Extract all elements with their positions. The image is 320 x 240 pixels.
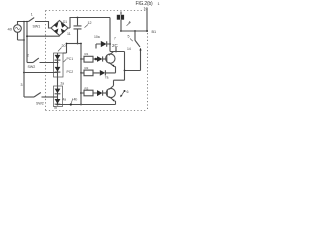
- LED PC4: [55, 99, 61, 104]
- svg-text:2a: 2a: [61, 82, 65, 86]
- LED stack spine: [57, 53, 59, 105]
- switch SW3 bottom: [24, 96, 34, 98]
- svg-text:7a: 7a: [105, 76, 109, 80]
- relay coil: [117, 15, 120, 20]
- wire AC top: [18, 22, 29, 25]
- diode D2: [94, 35, 100, 39]
- svg-text:D1: D1: [63, 20, 67, 24]
- svg-text:4a: 4a: [63, 98, 67, 102]
- svg-text:3: 3: [21, 83, 23, 87]
- svg-text:B1: B1: [152, 30, 157, 34]
- zener stub: [115, 47, 117, 52]
- label D1: [63, 20, 67, 24]
- base chain Q1: resistor R1: [85, 52, 89, 56]
- svg-text:6: 6: [127, 90, 129, 94]
- LED PC2: [55, 67, 61, 72]
- wire AC bottom: [18, 32, 25, 40]
- lower rail from C1: [67, 43, 82, 45]
- svg-text:2: 2: [27, 54, 29, 58]
- svg-text:40: 40: [8, 26, 13, 31]
- transistor Q1: [106, 54, 115, 63]
- svg-text:1: 1: [158, 2, 160, 6]
- label 12 with leader: [88, 21, 92, 25]
- label 4 with leader: [129, 20, 131, 24]
- mid bus: [80, 44, 82, 105]
- svg-text:11: 11: [67, 32, 71, 36]
- LED PC1: [55, 55, 61, 60]
- header text: [136, 1, 160, 10]
- transistor Q2: [106, 88, 115, 97]
- node line B1: [121, 30, 147, 32]
- svg-text:14: 14: [127, 47, 131, 51]
- svg-text:12: 12: [88, 21, 92, 25]
- dashed enclosure border: [46, 11, 148, 111]
- junction: [26, 35, 28, 37]
- relay contact: [134, 31, 136, 40]
- capacitor C1: [74, 26, 82, 29]
- svg-text:SW2: SW2: [36, 102, 44, 106]
- label P3: [61, 82, 65, 86]
- bridge + output to top rail: [68, 18, 110, 29]
- photo-LED box 2: [54, 86, 63, 107]
- svg-text:20: 20: [62, 44, 66, 48]
- AC source: [14, 25, 22, 33]
- svg-text:1: 1: [31, 13, 33, 17]
- svg-text:5: 5: [128, 35, 130, 39]
- base diode Q2: [97, 90, 102, 96]
- junction with label 4b: [70, 103, 72, 105]
- node B1: [146, 30, 148, 32]
- photo-LED box: [54, 53, 64, 77]
- svg-text:4b: 4b: [74, 98, 78, 102]
- svg-text:SW2: SW2: [28, 65, 36, 69]
- svg-text:PC1: PC1: [67, 57, 74, 61]
- svg-text:7b: 7b: [54, 106, 58, 110]
- bridge rectifier D1: [51, 21, 68, 36]
- wire left bus B: [26, 22, 28, 63]
- wire lead-in vertical: [146, 8, 148, 32]
- rail to PC2: [24, 72, 58, 74]
- switch SW1: [29, 18, 35, 22]
- switch SW2 mid: [27, 62, 33, 64]
- label 20 with leader: [62, 44, 66, 48]
- wire SW1 to bridge: [35, 22, 51, 29]
- top rail corner down: [109, 18, 111, 52]
- svg-text:10a: 10a: [94, 35, 100, 39]
- wire left bus A: [23, 22, 25, 98]
- svg-text:PC2: PC2: [67, 70, 74, 74]
- label 7b: [54, 106, 58, 110]
- base diode Q1: [97, 56, 102, 62]
- label 2C: [112, 43, 119, 48]
- LED PC3: [55, 89, 61, 94]
- svg-text:7: 7: [114, 37, 116, 41]
- svg-text:2C: 2C: [112, 43, 119, 48]
- relay loop wires: [110, 52, 141, 71]
- emitter chain: resistor R2: [85, 66, 89, 70]
- svg-text:SW1: SW1: [33, 25, 41, 29]
- bottom rail: [58, 104, 116, 106]
- diode on emitter rail: [100, 70, 105, 76]
- label 6 with leader: [124, 90, 126, 92]
- svg-text:R1: R1: [85, 52, 89, 56]
- resistor R3: [84, 90, 93, 96]
